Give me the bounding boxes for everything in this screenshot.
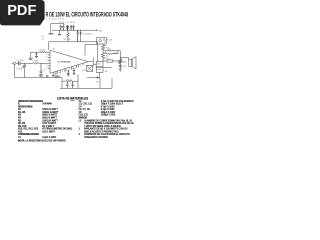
- svg-text:R DE 120W EL CIRCUITO INTEGRAD: R DE 120W EL CIRCUITO INTEGRADO STK4048: [46, 12, 129, 18]
- resistor R1: [33, 62, 50, 64]
- svg-text:8Ω: 8Ω: [96, 82, 99, 84]
- capacitor C5: [60, 25, 62, 30]
- svg-text:R9, R10: R9, R10: [18, 126, 27, 128]
- svg-text:L1: L1: [79, 120, 82, 122]
- svg-text:CIRCUITO INTEGRADO: CIRCUITO INTEGRADO: [18, 100, 43, 103]
- svg-text:R1 56K: R1 56K: [32, 61, 39, 63]
- fuse box F1: [97, 38, 107, 44]
- svg-text:C4: C4: [79, 106, 83, 108]
- svg-text:R6, R9: R6, R9: [18, 123, 26, 125]
- resistor R2: [40, 51, 46, 53]
- pin numbers hypotenuse: [55, 66, 81, 74]
- capacitor C13: [67, 70, 70, 76]
- svg-text:IC: IC: [18, 104, 21, 106]
- svg-text:R13: R13: [108, 49, 111, 51]
- svg-text:R3: R3: [18, 115, 22, 117]
- svg-text:LISTA DE MATERIALES: LISTA DE MATERIALES: [57, 96, 89, 100]
- svg-text:L1: L1: [108, 58, 110, 60]
- node OUT: [120, 57, 121, 58]
- wire branch pair: [103, 45, 108, 53]
- resistor R11 vertical: [101, 53, 104, 62]
- capacitor C8: [70, 25, 72, 30]
- svg-text:R15: R15: [123, 61, 126, 63]
- svg-text:1K: 1K: [42, 38, 45, 40]
- neg rail cluster: [62, 75, 78, 89]
- svg-text:STK4048: STK4048: [42, 104, 52, 106]
- rail end dot: [96, 30, 97, 31]
- svg-text:4,7μF X 100V: 4,7μF X 100V: [101, 106, 115, 108]
- svg-text:PDF: PDF: [7, 3, 36, 19]
- resistor R15 zobel: [119, 58, 122, 65]
- svg-text:10Ω 1 WATT: 10Ω 1 WATT: [42, 130, 55, 133]
- svg-text:R10, R11, R12, R13: R10, R11, R12, R13: [18, 129, 39, 131]
- svg-text:RL 8Ω: RL 8Ω: [96, 63, 101, 65]
- svg-text:100μF X 100V ELECT: 100μF X 100V ELECT: [101, 104, 124, 106]
- capacitor C7: [66, 25, 69, 30]
- svg-text:ALAMBRE DE COBRE ESMALTADO No: ALAMBRE DE COBRE ESMALTADO No 18, 10: [84, 119, 132, 122]
- svg-text:RESISTORES: RESISTORES: [18, 106, 33, 108]
- bootstrap box B1: [87, 65, 93, 71]
- svg-text:R7 4,7Ω: R7 4,7Ω: [64, 39, 71, 41]
- pin stub 6: [48, 68, 50, 70]
- wire output drop: [119, 51, 121, 58]
- svg-text:42V: 42V: [99, 30, 103, 32]
- wire lower stub: [103, 67, 111, 69]
- bottom rail: [60, 78, 112, 88]
- resistor R8: [62, 80, 78, 82]
- svg-text:+C2: +C2: [43, 70, 46, 72]
- pin stub 9b: [71, 67, 73, 70]
- ground G3: [29, 58, 33, 59]
- svg-text:1: 1: [79, 129, 81, 131]
- svg-text:C5 C6: C5 C6: [59, 22, 64, 24]
- svg-text:D1 1N4002: D1 1N4002: [82, 33, 91, 35]
- inductor L1: [107, 60, 113, 62]
- svg-text:R4: R4: [18, 118, 22, 120]
- svg-text:560Ω ¼ WATT: 560Ω ¼ WATT: [42, 117, 57, 120]
- svg-text:C8 C9: C8 C9: [70, 22, 75, 24]
- svg-text:C13: C13: [64, 70, 67, 72]
- svg-text:C5, C7, C9: C5, C7, C9: [79, 109, 91, 111]
- pin stub 8c: [57, 71, 59, 74]
- svg-text:BAFLE ACUSTICO RESPECTIVO: BAFLE ACUSTICO RESPECTIVO: [84, 130, 119, 133]
- resistor R14: [108, 51, 118, 55]
- pin stub 9c: [76, 65, 78, 68]
- svg-text:C14: C14: [71, 68, 74, 70]
- PDF badge: [0, 0, 45, 25]
- svg-text:VUELTAS SOBRE LA RESISTENCIA R: VUELTAS SOBRE LA RESISTENCIA R12 DE 1Ω: [84, 122, 134, 125]
- ground G5: [52, 74, 55, 77]
- wire mute stub: [30, 52, 32, 58]
- capacitor C8b: [72, 25, 74, 30]
- relay box RL2: [96, 67, 103, 72]
- feedback wire: [31, 51, 50, 53]
- output rail: [103, 60, 107, 62]
- svg-text:C2: C2: [79, 101, 83, 103]
- wire input: [16, 62, 18, 64]
- svg-text:C17: C17: [82, 70, 85, 72]
- svg-text:R14: R14: [113, 52, 116, 54]
- wire to IC top: [48, 42, 50, 50]
- capacitor C12 zobel: [119, 65, 122, 68]
- relay box RL1: [96, 62, 103, 67]
- resistor R7 vertical: [67, 30, 70, 42]
- wire top supply stub: [51, 24, 64, 34]
- pin stub 4: [48, 59, 50, 61]
- wire to speaker: [120, 58, 129, 60]
- diode D2: [96, 77, 98, 79]
- svg-text:C3, C10, C11: C3, C10, C11: [79, 104, 93, 106]
- svg-text:100μF X 100V: 100μF X 100V: [101, 112, 116, 114]
- svg-text:NOTA: LA RESISTENCIA R13 ES UN: NOTA: LA RESISTENCIA R13 ES UN PUENTE: [18, 139, 66, 142]
- svg-text:4,7μF X 100V NO POLARIZADO: 4,7μF X 100V NO POLARIZADO: [101, 100, 134, 103]
- pin numbers left edge: [45, 51, 48, 68]
- capacitor C3: [47, 75, 48, 77]
- op-amp U1 STK4048: [50, 50, 88, 73]
- capacitor C2: [40, 63, 43, 74]
- capacitor C14: [73, 68, 76, 74]
- capacitor CA plate: [49, 33, 54, 35]
- capacitor C11: [58, 75, 59, 77]
- capacitor C15: [66, 81, 68, 88]
- ground G4: [39, 75, 43, 76]
- capacitor CB: [59, 30, 61, 34]
- potentiometer P1: [22, 63, 26, 71]
- pin stub 7: [55, 72, 58, 78]
- svg-text:1Ω 1 WATT: 1Ω 1 WATT: [42, 125, 54, 128]
- resistor R13: [108, 50, 120, 52]
- wire relay to chain: [93, 63, 96, 65]
- svg-text:5W: 5W: [105, 71, 108, 73]
- svg-text:R5: R5: [18, 120, 22, 122]
- svg-text:DISIPADOR DE CALOR PARA EL CIR: DISIPADOR DE CALOR PARA EL CIRCUITO: [84, 133, 130, 136]
- svg-text:R12: R12: [18, 131, 23, 133]
- capacitor C9: [77, 30, 79, 42]
- svg-text:2200μF X 63V: 2200μF X 63V: [101, 115, 116, 117]
- svg-text:VARIOS: VARIOS: [79, 117, 88, 120]
- svg-text:100KΩ ¼ WATT: 100KΩ ¼ WATT: [42, 111, 59, 114]
- wire apex: [88, 58, 93, 66]
- ground rail input: [15, 65, 62, 78]
- capacitor C4 feedback: [35, 52, 38, 58]
- ground G2: [119, 69, 123, 71]
- svg-text:0,1μF X 100V: 0,1μF X 100V: [101, 109, 115, 111]
- supply rail +V: [52, 29, 97, 31]
- svg-text:C1: C1: [18, 137, 22, 139]
- pin stub 11: [82, 63, 84, 65]
- svg-text:RL 8Ω: RL 8Ω: [96, 69, 101, 71]
- svg-text:T1 220V 45+45V 5A: T1 220V 45+45V 5A: [48, 18, 64, 21]
- svg-text:PARLANTE DE 8Ω X 150 WATTS CON: PARLANTE DE 8Ω X 150 WATTS CON SU: [84, 128, 128, 131]
- diode D1: [80, 30, 82, 42]
- svg-text:F1 3A: F1 3A: [107, 39, 113, 42]
- pin stub 8b: [53, 72, 55, 74]
- supply branch: [85, 45, 98, 56]
- svg-text:R2, R8,: R2, R8,: [18, 112, 26, 114]
- svg-text:C6: C6: [79, 112, 83, 114]
- wire cap to pot: [20, 62, 33, 64]
- speaker SP1: [129, 59, 132, 66]
- svg-text:R4: R4: [53, 49, 55, 51]
- pin stub 5: [48, 65, 50, 67]
- svg-text:R1: R1: [18, 109, 22, 111]
- resistor R10 vertical: [101, 44, 104, 53]
- svg-text:P1 50K: P1 50K: [16, 69, 23, 71]
- capacitor C16: [72, 81, 74, 88]
- svg-text:5,6KΩ ¼ WATT: 5,6KΩ ¼ WATT: [42, 119, 58, 122]
- svg-text:C10, C11: C10, C11: [79, 115, 89, 117]
- svg-text:C12: C12: [123, 66, 126, 68]
- svg-text:R2 56K: R2 56K: [39, 50, 46, 52]
- wire relay to bottom: [87, 72, 100, 88]
- svg-text:INTEGRADO STK4048: INTEGRADO STK4048: [84, 136, 108, 139]
- capacitor C6: [62, 25, 64, 30]
- pin stub 8: [60, 70, 62, 73]
- svg-text:2: 2: [79, 134, 81, 136]
- pin stub 10: [78, 65, 80, 68]
- svg-text:C1 2,2μ: C1 2,2μ: [17, 60, 23, 62]
- svg-text:56KΩ ¼ WATT: 56KΩ ¼ WATT: [42, 114, 58, 117]
- svg-text:5,6KΩ ¼ WATT: 5,6KΩ ¼ WATT: [42, 108, 58, 111]
- junction dots: [60, 29, 81, 32]
- svg-text:CONDENSADORES: CONDENSADORES: [18, 133, 39, 136]
- wire jack tail: [12, 62, 14, 64]
- pin stub 2: [48, 54, 50, 56]
- svg-text:C7: C7: [66, 22, 68, 24]
- pin stub 3: [48, 57, 50, 59]
- svg-text:1 WATT EN SERIE CON LA SALIDA: 1 WATT EN SERIE CON LA SALIDA: [84, 125, 121, 128]
- input jack J1: [13, 62, 16, 65]
- capacitor C1: [19, 61, 20, 65]
- mid rail: [49, 42, 98, 62]
- svg-text:POTENCIOMETRO DE 50KΩ: POTENCIOMETRO DE 50KΩ: [42, 129, 72, 131]
- svg-text:2,2μF X 100V: 2,2μF X 100V: [42, 137, 56, 139]
- svg-text:IC STK4048: IC STK4048: [58, 61, 71, 64]
- svg-text:R8 1Ω: R8 1Ω: [66, 79, 72, 81]
- pin stub 9: [64, 69, 66, 72]
- capacitor CB plate: [58, 34, 61, 36]
